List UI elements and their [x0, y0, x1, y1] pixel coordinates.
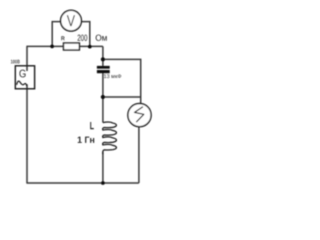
inductor L coil	[103, 122, 117, 154]
capacitor C bottom plate	[97, 70, 110, 73]
lamp zigzag filament	[135, 107, 144, 122]
wire: inductor bottom lead	[102, 152, 104, 183]
voltmeter letter V	[67, 15, 75, 26]
generator sine symbol	[17, 81, 27, 86]
wire: top-right corner down to node A	[102, 46, 104, 59]
node: bottom bus junction dot	[101, 181, 105, 185]
node: left resistor junction dot	[50, 45, 54, 49]
lamp circle	[128, 104, 151, 127]
capacitor C top plate	[97, 66, 110, 69]
resistor unit Ом	[96, 35, 107, 41]
wire: node B horizontal to lamp branch	[103, 96, 141, 98]
node: right resistor junction dot	[88, 45, 92, 49]
generator letter G	[19, 70, 25, 78]
node B junction dot	[101, 95, 105, 99]
resistor R designator	[61, 36, 64, 40]
voltmeter circle	[61, 10, 82, 31]
inductor value 1 Гн	[78, 137, 95, 143]
resistor R body	[64, 43, 80, 50]
wire: capacitor bottom lead down to inductor	[102, 73, 104, 123]
inductor designator L	[90, 122, 94, 129]
node A junction dot	[101, 57, 105, 61]
generator voltage label 100В	[11, 60, 20, 64]
wire: voltmeter right leg	[81, 22, 90, 47]
wire: left vertical lower segment through generator	[26, 84, 28, 183]
wire: left vertical upper segment	[26, 46, 28, 71]
capacitor value 13 мкФ	[104, 74, 121, 78]
wire: node A to right branch, down to lamp	[103, 59, 141, 103]
wire: bottom bus	[26, 182, 138, 184]
wire: lamp bottom lead	[138, 127, 140, 183]
wire: capacitor top lead	[102, 59, 104, 66]
generator G box	[15, 66, 34, 89]
wire: voltmeter left leg	[52, 22, 61, 47]
wire: top horizontal bus	[26, 45, 103, 47]
resistor value 200	[78, 35, 88, 41]
